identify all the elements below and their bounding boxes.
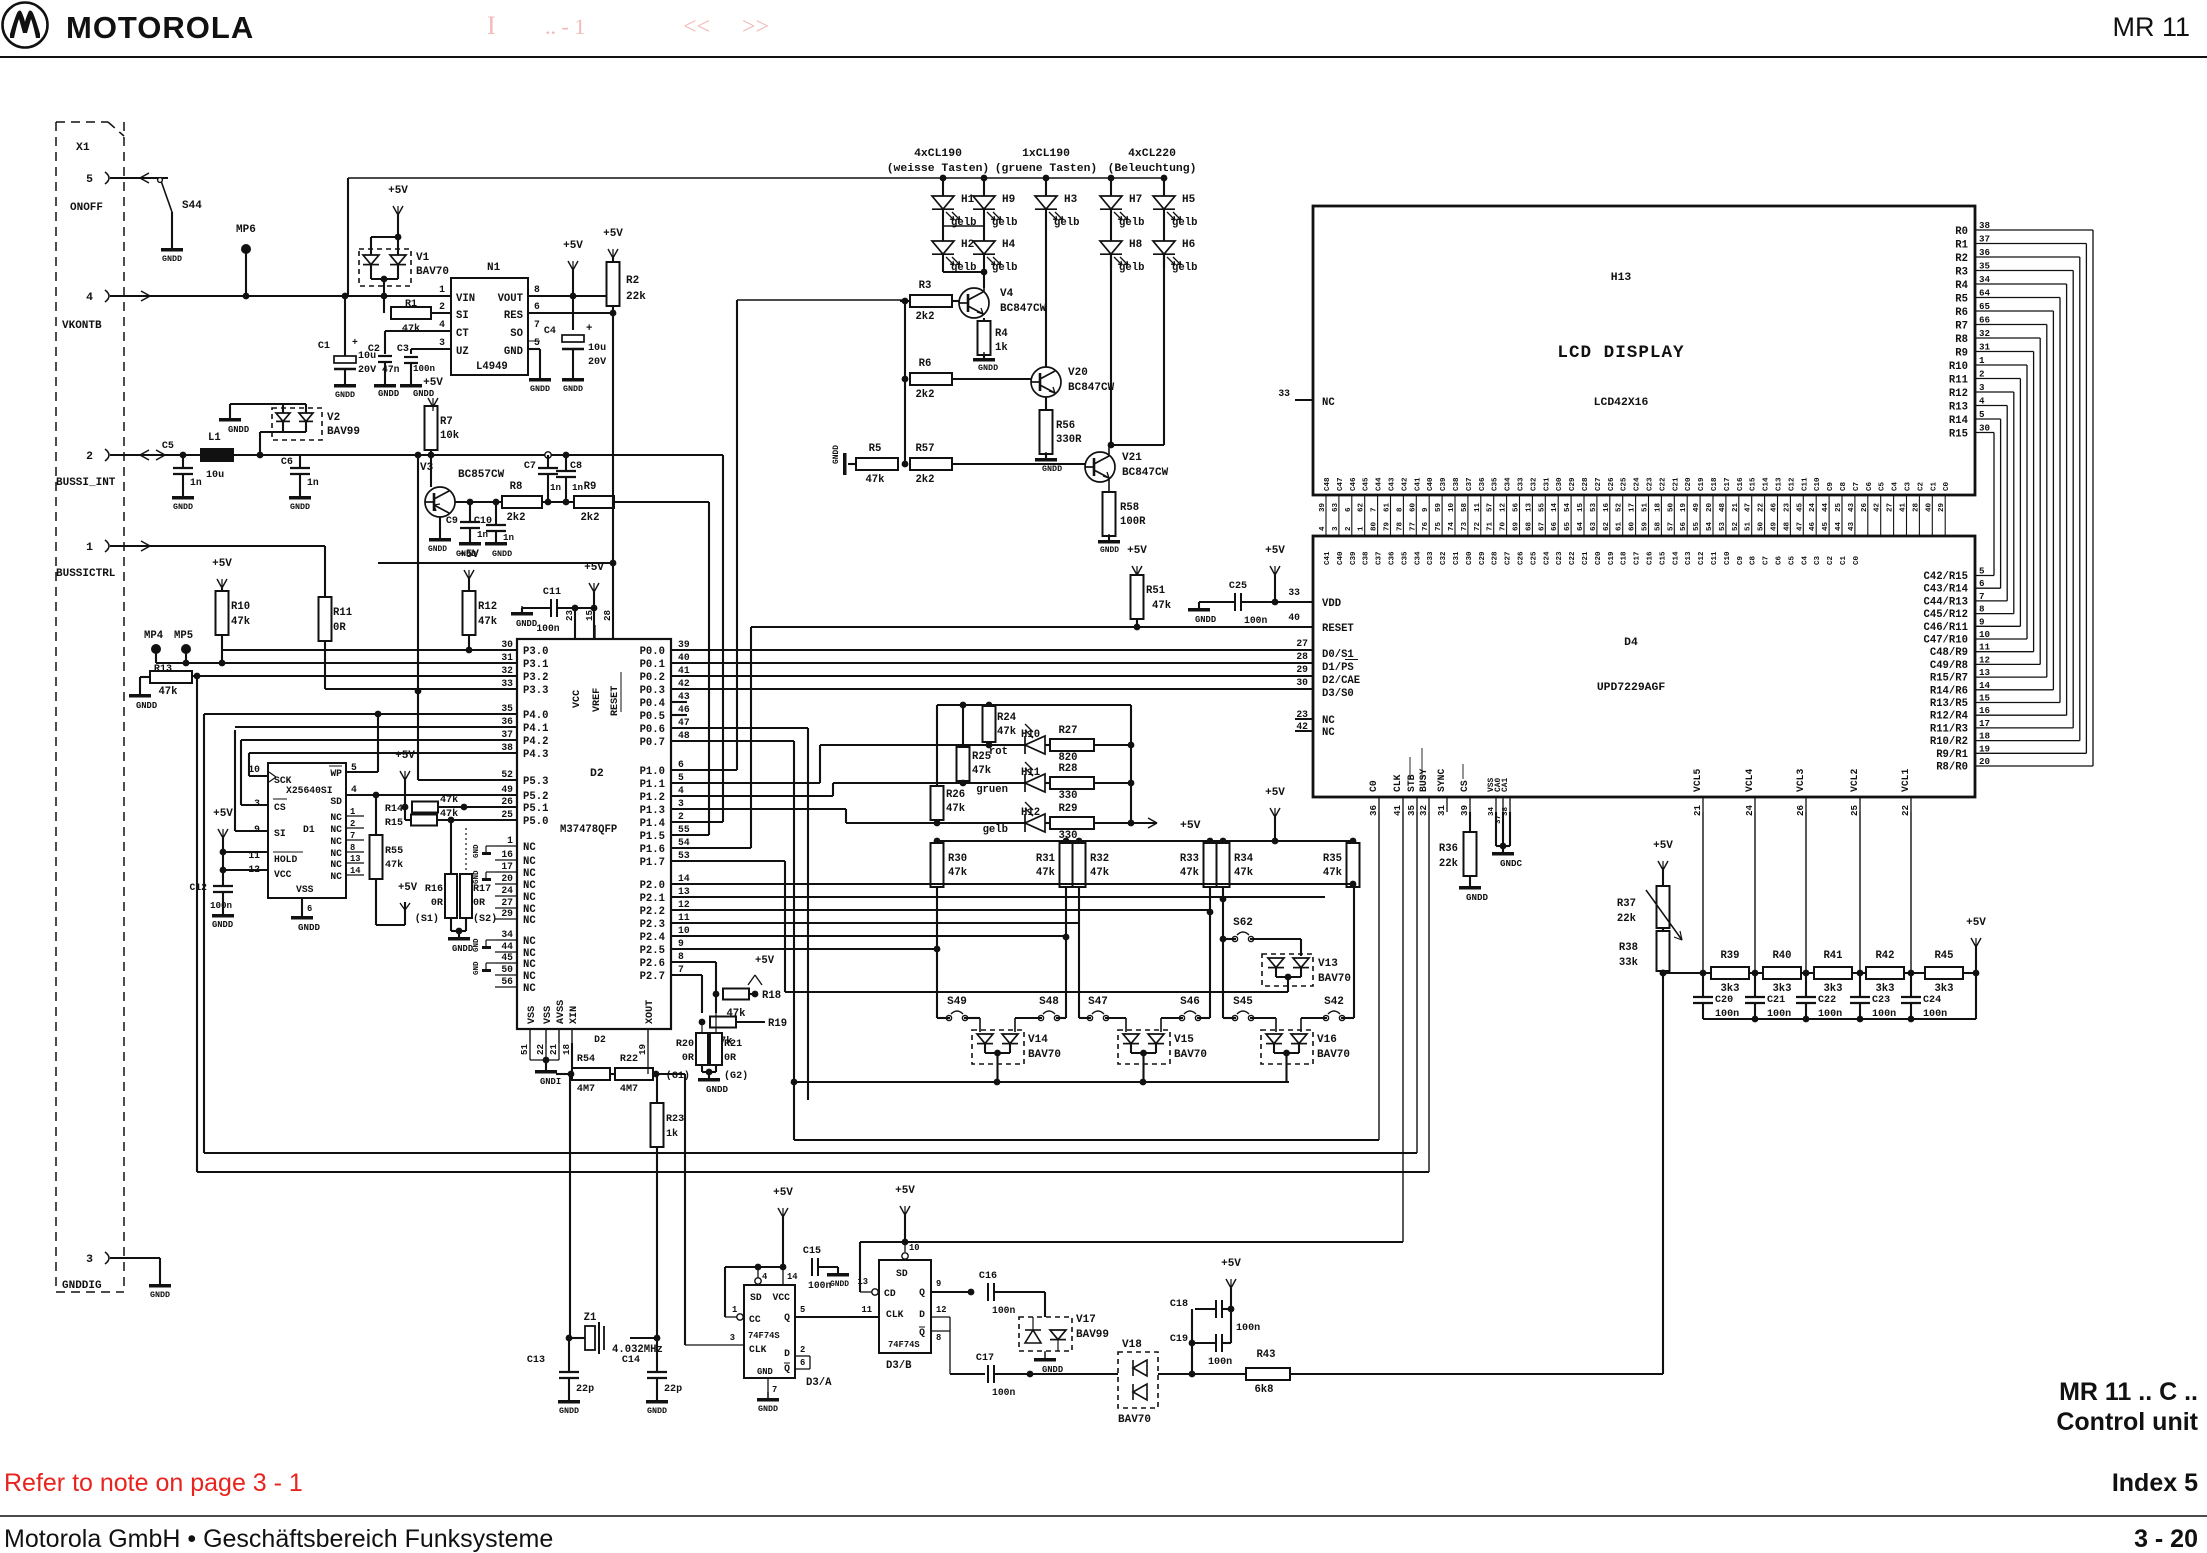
svg-text:X1: X1 xyxy=(76,142,90,154)
svg-text:NC: NC xyxy=(1322,727,1335,739)
svg-text:C21: C21 xyxy=(1672,477,1680,491)
svg-text:47k: 47k xyxy=(865,474,885,486)
svg-text:0R: 0R xyxy=(682,1053,695,1064)
svg-text:100n: 100n xyxy=(210,900,232,911)
svg-text:R13: R13 xyxy=(154,664,172,675)
svg-text:24: 24 xyxy=(1809,502,1817,512)
svg-text:71: 71 xyxy=(1487,521,1495,531)
svg-text:R19: R19 xyxy=(768,1018,787,1030)
svg-text:R13: R13 xyxy=(1949,402,1968,414)
svg-text:P2.7: P2.7 xyxy=(640,971,665,983)
svg-text:GNDD: GNDD xyxy=(1195,615,1216,625)
svg-text:1: 1 xyxy=(350,807,355,817)
svg-text:Z1: Z1 xyxy=(584,1312,597,1324)
svg-text:20V: 20V xyxy=(588,357,607,368)
svg-text:C6: C6 xyxy=(1776,555,1784,565)
svg-text:R28: R28 xyxy=(1058,763,1077,775)
svg-text:8: 8 xyxy=(534,284,540,295)
svg-text:10u: 10u xyxy=(588,343,606,354)
svg-text:Q: Q xyxy=(919,1327,925,1338)
svg-text:R37: R37 xyxy=(1617,898,1636,910)
svg-text:C7: C7 xyxy=(1853,482,1861,491)
svg-text:R14: R14 xyxy=(1949,415,1969,427)
svg-text:64: 64 xyxy=(1577,521,1585,531)
svg-text:D2/CAE: D2/CAE xyxy=(1322,675,1360,687)
svg-text:1n: 1n xyxy=(572,482,583,493)
svg-text:P5.1: P5.1 xyxy=(523,803,548,815)
svg-text:R6: R6 xyxy=(919,358,932,370)
svg-text:31: 31 xyxy=(501,652,513,663)
svg-text:GNDD: GNDD xyxy=(1466,892,1489,903)
svg-text:5: 5 xyxy=(534,337,540,348)
svg-text:Q: Q xyxy=(784,1363,790,1374)
svg-text:C39: C39 xyxy=(1440,477,1448,491)
svg-text:38: 38 xyxy=(501,742,513,753)
svg-text:H4: H4 xyxy=(1002,239,1016,251)
svg-text:NC: NC xyxy=(523,983,536,995)
svg-text:C0: C0 xyxy=(1943,481,1951,491)
svg-text:10k: 10k xyxy=(440,430,460,442)
svg-text:V1: V1 xyxy=(416,252,430,264)
svg-text:7: 7 xyxy=(1979,591,1985,602)
svg-text:C32: C32 xyxy=(1530,477,1538,491)
svg-text:100n: 100n xyxy=(1208,1357,1232,1368)
svg-text:(weisse Tasten): (weisse Tasten) xyxy=(887,163,990,175)
svg-text:5: 5 xyxy=(678,772,684,783)
svg-text:15: 15 xyxy=(1979,693,1991,704)
svg-text:(gruene Tasten): (gruene Tasten) xyxy=(995,163,1098,175)
svg-text:18: 18 xyxy=(1979,731,1991,742)
svg-text:26: 26 xyxy=(501,796,513,807)
svg-text:13: 13 xyxy=(1979,667,1991,678)
svg-text:C42/R15: C42/R15 xyxy=(1923,571,1968,583)
svg-text:3: 3 xyxy=(86,1254,93,1266)
svg-text:4: 4 xyxy=(1979,396,1985,407)
svg-text:0R: 0R xyxy=(473,898,486,909)
svg-text:0R: 0R xyxy=(724,1053,737,1064)
svg-text:C3: C3 xyxy=(1905,481,1913,491)
svg-text:NC: NC xyxy=(330,848,342,859)
svg-text:100n: 100n xyxy=(992,1305,1015,1316)
svg-text:74F74S: 74F74S xyxy=(748,1331,780,1341)
svg-text:GNDD: GNDD xyxy=(1100,546,1119,555)
svg-text:C8: C8 xyxy=(1840,481,1848,491)
svg-text:P1.4: P1.4 xyxy=(640,818,666,830)
svg-text:27: 27 xyxy=(501,897,513,908)
svg-text:32: 32 xyxy=(1418,805,1429,816)
svg-text:GNDD: GNDD xyxy=(830,1280,849,1289)
svg-text:18: 18 xyxy=(561,1043,572,1055)
svg-text:39: 39 xyxy=(1459,805,1470,816)
svg-text:GNDD: GNDD xyxy=(647,1406,667,1416)
svg-text:GNDD: GNDD xyxy=(563,384,583,394)
svg-text:13: 13 xyxy=(1525,502,1533,512)
svg-text:BAV70: BAV70 xyxy=(1317,1049,1350,1061)
svg-text:C18: C18 xyxy=(1621,551,1629,565)
svg-text:47k: 47k xyxy=(1234,867,1254,879)
svg-text:2k2: 2k2 xyxy=(506,512,525,524)
svg-text:BUSSICTRL: BUSSICTRL xyxy=(56,568,116,580)
svg-text:GNDD: GNDD xyxy=(428,545,447,554)
svg-text:C41: C41 xyxy=(1414,477,1422,491)
svg-text:1k: 1k xyxy=(995,342,1008,354)
svg-text:19: 19 xyxy=(637,1044,648,1055)
svg-text:gelb: gelb xyxy=(1054,217,1079,229)
svg-text:CS: CS xyxy=(1459,780,1470,792)
svg-text:P1.1: P1.1 xyxy=(640,779,665,791)
svg-text:GNDD: GNDD xyxy=(212,920,233,930)
svg-text:CLK: CLK xyxy=(1392,774,1403,792)
svg-text:XOUT: XOUT xyxy=(645,1000,656,1024)
svg-text:C17: C17 xyxy=(976,1353,994,1364)
svg-text:2: 2 xyxy=(678,811,684,822)
svg-text:V16: V16 xyxy=(1317,1034,1337,1046)
svg-text:5: 5 xyxy=(86,174,93,186)
svg-text:C30: C30 xyxy=(1556,477,1564,491)
svg-text:V15: V15 xyxy=(1174,1034,1194,1046)
svg-text:R9/R1: R9/R1 xyxy=(1936,749,1968,761)
svg-text:1n: 1n xyxy=(503,532,514,543)
svg-text:P2.0: P2.0 xyxy=(640,880,665,892)
svg-text:35: 35 xyxy=(1406,804,1417,816)
svg-text:GNDD: GNDD xyxy=(150,1290,170,1300)
svg-text:1: 1 xyxy=(1979,355,1985,366)
svg-text:17: 17 xyxy=(1979,718,1990,729)
svg-text:29: 29 xyxy=(1938,502,1946,512)
svg-text:C20: C20 xyxy=(1685,477,1693,491)
svg-text:34: 34 xyxy=(1488,806,1496,816)
svg-text:(Beleuchtung): (Beleuchtung) xyxy=(1108,163,1197,175)
svg-text:RESET: RESET xyxy=(1322,623,1354,635)
svg-text:10: 10 xyxy=(248,764,260,775)
svg-text:R14/R6: R14/R6 xyxy=(1930,685,1968,697)
svg-text:4: 4 xyxy=(678,785,684,796)
svg-text:47k: 47k xyxy=(948,867,968,879)
svg-text:AVSS: AVSS xyxy=(556,1000,567,1024)
svg-text:28: 28 xyxy=(1912,502,1920,512)
svg-text:SD: SD xyxy=(330,796,342,807)
svg-text:3k3: 3k3 xyxy=(1823,983,1842,995)
svg-text:56: 56 xyxy=(1513,502,1521,512)
svg-text:33: 33 xyxy=(1288,587,1300,598)
svg-text:36: 36 xyxy=(1979,247,1990,258)
svg-text:V20: V20 xyxy=(1068,367,1088,379)
svg-text:C26: C26 xyxy=(1518,551,1526,565)
svg-text:14: 14 xyxy=(1551,502,1559,512)
svg-text:23: 23 xyxy=(1296,709,1308,720)
svg-text:2: 2 xyxy=(350,819,355,829)
svg-text:P4.2: P4.2 xyxy=(523,736,548,748)
svg-text:41: 41 xyxy=(678,665,690,676)
svg-text:52: 52 xyxy=(1732,521,1740,531)
svg-text:R2: R2 xyxy=(1955,253,1968,265)
svg-text:R13/R5: R13/R5 xyxy=(1930,698,1968,710)
svg-text:35: 35 xyxy=(501,703,513,714)
svg-text:P2.3: P2.3 xyxy=(640,919,665,931)
svg-text:R1: R1 xyxy=(405,299,417,310)
svg-text:S49: S49 xyxy=(947,996,967,1008)
svg-text:C41: C41 xyxy=(1324,551,1332,565)
svg-text:79: 79 xyxy=(1384,521,1392,531)
svg-text:R39: R39 xyxy=(1720,950,1739,962)
svg-text:S44: S44 xyxy=(182,200,202,212)
svg-text:C9: C9 xyxy=(1737,555,1745,565)
svg-text:53: 53 xyxy=(1590,502,1598,512)
svg-text:(S1): (S1) xyxy=(415,913,439,925)
svg-text:22: 22 xyxy=(1900,805,1911,816)
svg-text:25: 25 xyxy=(501,809,513,820)
svg-text:CLK: CLK xyxy=(886,1309,904,1320)
svg-text:C6: C6 xyxy=(281,457,293,468)
svg-text:P1.2: P1.2 xyxy=(640,792,665,804)
svg-text:5: 5 xyxy=(1979,566,1985,577)
svg-text:C23: C23 xyxy=(1647,477,1655,491)
svg-text:GNDD: GNDD xyxy=(1042,464,1062,474)
svg-text:C27: C27 xyxy=(1505,551,1513,565)
svg-text:45: 45 xyxy=(1822,521,1830,531)
svg-text:330: 330 xyxy=(1058,790,1077,802)
svg-text:43: 43 xyxy=(1848,521,1856,531)
svg-text:33: 33 xyxy=(501,678,513,689)
svg-text:NC: NC xyxy=(330,871,342,882)
svg-text:C37: C37 xyxy=(1376,551,1384,565)
svg-text:C24: C24 xyxy=(1923,995,1941,1006)
svg-text:GNDD: GNDD xyxy=(136,701,157,711)
svg-text:27: 27 xyxy=(1296,638,1308,649)
svg-text:NC: NC xyxy=(330,836,342,847)
svg-text:7: 7 xyxy=(350,831,355,841)
svg-text:gelb: gelb xyxy=(1119,262,1144,274)
svg-text:R3: R3 xyxy=(1955,267,1968,279)
svg-text:C24: C24 xyxy=(1634,477,1642,491)
svg-text:65: 65 xyxy=(1979,301,1991,312)
svg-text:P3.2: P3.2 xyxy=(523,672,548,684)
svg-text:C2: C2 xyxy=(1917,481,1925,491)
svg-text:SYNC: SYNC xyxy=(1436,769,1447,792)
svg-text:P5.3: P5.3 xyxy=(523,776,548,788)
svg-text:XIN: XIN xyxy=(569,1006,580,1024)
svg-text:52: 52 xyxy=(1616,502,1624,512)
svg-text:ONOFF: ONOFF xyxy=(70,202,103,214)
svg-text:22k: 22k xyxy=(1617,913,1637,925)
svg-text:76: 76 xyxy=(1422,521,1430,531)
svg-text:R36: R36 xyxy=(1439,843,1458,855)
svg-text:+5V: +5V xyxy=(388,185,408,197)
svg-text:P2.5: P2.5 xyxy=(640,945,665,957)
svg-text:55: 55 xyxy=(1693,521,1701,531)
svg-text:SI: SI xyxy=(274,828,286,839)
svg-text:C17: C17 xyxy=(1724,477,1732,491)
svg-text:CC: CC xyxy=(749,1314,761,1325)
svg-text:C48: C48 xyxy=(1324,477,1332,491)
svg-text:19: 19 xyxy=(1979,743,1990,754)
svg-text:H12: H12 xyxy=(1021,807,1040,819)
svg-text:37: 37 xyxy=(501,729,513,740)
svg-text:C4: C4 xyxy=(1801,555,1809,565)
svg-text:C40: C40 xyxy=(1427,477,1435,491)
svg-text:C19: C19 xyxy=(1170,1334,1188,1345)
svg-text:13: 13 xyxy=(678,886,690,897)
svg-text:C23: C23 xyxy=(1872,995,1890,1006)
svg-text:C18: C18 xyxy=(1711,477,1719,491)
svg-text:43: 43 xyxy=(678,691,690,702)
svg-text:42: 42 xyxy=(1296,721,1308,732)
svg-text:C33: C33 xyxy=(1427,551,1435,565)
svg-text:C46/R11: C46/R11 xyxy=(1923,622,1968,634)
svg-text:GNDD: GNDD xyxy=(290,502,310,512)
svg-text:C15: C15 xyxy=(803,1246,821,1257)
svg-text:>>: >> xyxy=(742,14,769,40)
svg-text:GNDD: GNDD xyxy=(335,390,355,400)
svg-text:16: 16 xyxy=(1979,705,1990,716)
svg-text:C11: C11 xyxy=(543,587,561,598)
svg-text:7: 7 xyxy=(772,1385,777,1395)
svg-text:C17: C17 xyxy=(1634,551,1642,565)
svg-text:C21: C21 xyxy=(1582,551,1590,565)
svg-text:S48: S48 xyxy=(1039,996,1059,1008)
svg-text:C26: C26 xyxy=(1608,477,1616,491)
svg-text:7: 7 xyxy=(534,319,540,330)
svg-text:V18: V18 xyxy=(1122,1339,1142,1351)
svg-text:3k3: 3k3 xyxy=(1934,983,1953,995)
svg-text:58: 58 xyxy=(1461,502,1469,512)
svg-text:C5: C5 xyxy=(1788,555,1796,565)
svg-text:P0.0: P0.0 xyxy=(640,646,665,658)
svg-text:3k3: 3k3 xyxy=(1875,983,1894,995)
svg-text:51: 51 xyxy=(519,1043,530,1055)
svg-text:C4: C4 xyxy=(544,326,556,337)
svg-text:23: 23 xyxy=(564,609,575,621)
svg-text:R22: R22 xyxy=(620,1054,638,1065)
svg-text:R58: R58 xyxy=(1120,502,1139,514)
svg-text:47k: 47k xyxy=(158,686,178,698)
svg-text:NC: NC xyxy=(523,892,536,904)
svg-text:+5V: +5V xyxy=(895,1185,915,1197)
svg-text:SD: SD xyxy=(896,1268,908,1279)
svg-text:MP6: MP6 xyxy=(236,224,256,236)
svg-text:+5V: +5V xyxy=(1265,545,1285,557)
svg-text:R26: R26 xyxy=(946,789,965,801)
svg-text:43: 43 xyxy=(1848,502,1856,512)
svg-text:1: 1 xyxy=(507,835,513,846)
svg-text:75: 75 xyxy=(1435,521,1443,531)
svg-text:47k: 47k xyxy=(385,859,403,871)
svg-text:C36: C36 xyxy=(1479,477,1487,491)
svg-text:HOLD: HOLD xyxy=(274,854,297,865)
svg-text:C5: C5 xyxy=(162,441,174,452)
svg-text:GND: GND xyxy=(757,1367,773,1377)
svg-text:66: 66 xyxy=(1979,315,1990,326)
svg-text:5: 5 xyxy=(1979,409,1985,420)
svg-text:9: 9 xyxy=(254,824,260,835)
svg-text:VCC: VCC xyxy=(274,869,292,880)
svg-text:C11: C11 xyxy=(1711,551,1719,565)
svg-text:R16: R16 xyxy=(425,884,443,895)
svg-text:C11: C11 xyxy=(1801,477,1809,491)
svg-text:3: 3 xyxy=(439,337,445,348)
svg-text:8: 8 xyxy=(350,843,355,853)
svg-text:D3/A: D3/A xyxy=(806,1377,832,1389)
svg-text:22k: 22k xyxy=(1439,858,1459,870)
svg-text:10u: 10u xyxy=(206,470,224,481)
svg-text:C14: C14 xyxy=(1672,551,1680,565)
svg-text:P4.1: P4.1 xyxy=(523,723,548,735)
svg-text:2: 2 xyxy=(439,301,445,312)
svg-text:10: 10 xyxy=(1448,502,1456,512)
svg-text:C25: C25 xyxy=(1621,477,1629,491)
svg-text:NC: NC xyxy=(523,915,536,927)
svg-text:26: 26 xyxy=(1861,502,1869,512)
svg-text:P3.1: P3.1 xyxy=(523,659,548,671)
svg-text:19: 19 xyxy=(1680,502,1688,512)
svg-text:8: 8 xyxy=(936,1333,941,1343)
svg-text:1: 1 xyxy=(439,284,445,295)
svg-text:40: 40 xyxy=(1925,502,1933,512)
svg-text:55: 55 xyxy=(1538,502,1546,512)
svg-text:+5V: +5V xyxy=(1966,917,1986,929)
svg-text:C2: C2 xyxy=(368,344,380,355)
svg-text:C13: C13 xyxy=(527,1355,545,1366)
svg-text:R9: R9 xyxy=(584,481,597,493)
svg-text:GNDD: GNDD xyxy=(530,384,550,394)
svg-text:NC: NC xyxy=(330,824,342,835)
svg-text:GNDD: GNDD xyxy=(162,254,182,264)
svg-text:VDD: VDD xyxy=(1322,598,1341,610)
svg-text:46: 46 xyxy=(1809,521,1817,531)
svg-text:C6: C6 xyxy=(1866,481,1874,491)
svg-text:44: 44 xyxy=(501,941,513,952)
svg-text:GNDD: GNDD xyxy=(978,363,998,373)
svg-text:C43: C43 xyxy=(1389,477,1397,491)
svg-text:41: 41 xyxy=(1392,804,1403,816)
svg-text:R56: R56 xyxy=(1056,420,1075,432)
svg-text:GNDD: GNDD xyxy=(378,389,399,399)
svg-text:VSS: VSS xyxy=(527,1006,538,1024)
svg-text:V3: V3 xyxy=(420,462,434,474)
svg-text:H11: H11 xyxy=(1021,767,1040,779)
svg-text:D4: D4 xyxy=(1624,637,1638,649)
svg-text:C28: C28 xyxy=(1582,477,1590,491)
svg-text:R33: R33 xyxy=(1180,853,1199,865)
svg-text:12: 12 xyxy=(678,899,690,910)
svg-text:3k3: 3k3 xyxy=(1720,983,1739,995)
svg-text:51: 51 xyxy=(1642,502,1650,512)
svg-text:12: 12 xyxy=(1500,502,1508,512)
svg-text:MOTOROLA: MOTOROLA xyxy=(66,10,254,45)
svg-text:GND: GND xyxy=(473,938,481,952)
svg-text:R11/R3: R11/R3 xyxy=(1930,723,1968,735)
svg-text:gelb: gelb xyxy=(1119,217,1144,229)
svg-text:2k2: 2k2 xyxy=(915,474,934,486)
svg-text:SD: SD xyxy=(750,1292,762,1303)
svg-text:S42: S42 xyxy=(1324,996,1344,1008)
svg-text:1: 1 xyxy=(1358,526,1366,531)
svg-text:GNDD: GNDD xyxy=(413,389,434,399)
svg-text:9: 9 xyxy=(1422,507,1430,512)
svg-text:10: 10 xyxy=(678,925,690,936)
svg-text:BAV99: BAV99 xyxy=(1076,1329,1109,1341)
svg-text:C16: C16 xyxy=(979,1271,997,1282)
svg-text:S45: S45 xyxy=(1233,996,1253,1008)
svg-text:S47: S47 xyxy=(1088,996,1108,1008)
svg-text:NC: NC xyxy=(523,868,536,880)
svg-text:R54: R54 xyxy=(577,1054,595,1065)
svg-text:50: 50 xyxy=(501,964,513,975)
svg-text:C39: C39 xyxy=(1350,551,1358,565)
svg-text:53: 53 xyxy=(1719,521,1727,531)
svg-text:C30: C30 xyxy=(1466,551,1474,565)
svg-text:4M7: 4M7 xyxy=(620,1084,638,1095)
